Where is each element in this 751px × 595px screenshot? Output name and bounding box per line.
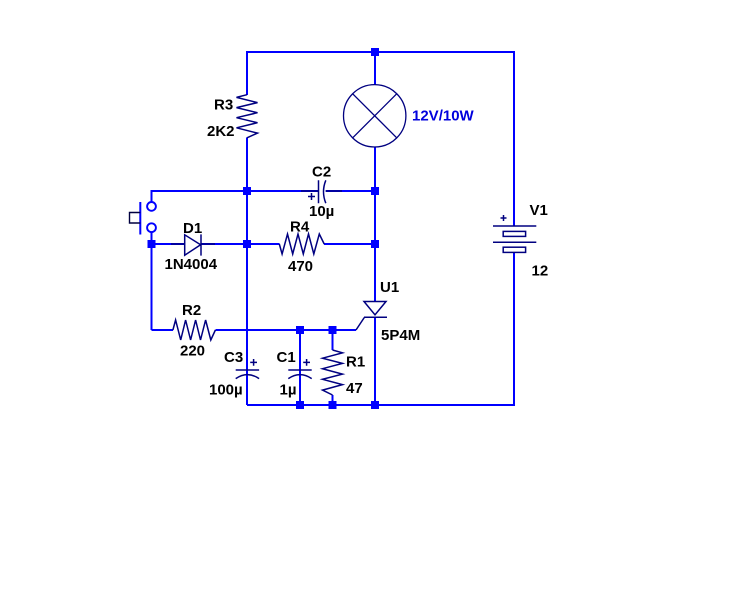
wire: row-3 lead from left rail to R2	[152, 329, 174, 331]
svg-text:5P4M: 5P4M	[381, 327, 420, 344]
lamp 12V/10W	[344, 85, 406, 147]
svg-text:12: 12	[532, 263, 549, 280]
pushbutton switch cap	[130, 213, 141, 224]
junction bottom rail / R1	[329, 401, 337, 409]
svg-text:C2: C2	[312, 164, 331, 181]
wire: R1 bottom lead	[332, 395, 334, 405]
wire: C1 branch from row-3 junction to bottom rail	[299, 330, 301, 405]
wire: row-1 left segment (switch corner to C2)	[152, 191, 319, 202]
resistor R1	[323, 350, 343, 395]
svg-text:1µ: 1µ	[280, 382, 297, 399]
junction top rail / lamp	[371, 48, 379, 56]
svg-text:2K2: 2K2	[207, 123, 235, 140]
svg-text:R1: R1	[346, 354, 365, 371]
junction row2 / R4-U1	[371, 240, 379, 248]
label C1 polarity +	[303, 359, 310, 366]
thyristor U1	[356, 302, 387, 331]
svg-text:R3: R3	[214, 97, 233, 114]
svg-text:C3: C3	[224, 349, 243, 366]
wire: U1 cathode lead down to bottom rail	[374, 318, 376, 406]
junction row2 / switch-D1	[148, 240, 156, 248]
battery V1	[493, 215, 536, 252]
wire: switch bottom terminal to row-2 junction	[151, 233, 153, 244]
wire: top rail from R3 top to right rail, corner down to battery	[247, 52, 514, 226]
junction row1 / lamp-C2	[371, 187, 379, 195]
resistor R4	[279, 234, 324, 254]
svg-text:C1: C1	[277, 349, 296, 366]
resistor R3	[237, 95, 258, 138]
svg-text:10µ: 10µ	[309, 203, 334, 220]
pushbutton switch bottom terminal	[147, 223, 156, 232]
wire: lamp branch between row 1 and row 2	[374, 191, 376, 244]
svg-text:47: 47	[346, 380, 363, 397]
wire: lamp bottom stub to row-1 junction	[374, 147, 376, 192]
svg-text:R4: R4	[290, 219, 310, 236]
capacitor C1	[288, 370, 311, 379]
junction row1 / R3-C2	[243, 187, 251, 195]
svg-text:D1: D1	[183, 220, 202, 237]
svg-text:220: 220	[180, 343, 205, 360]
wire: lamp top stub	[374, 52, 376, 85]
capacitor C3	[236, 370, 259, 379]
wire: row-2 anode lead to D1	[152, 243, 185, 245]
junction row3 / R1 top-gate	[329, 326, 337, 334]
svg-text:100µ: 100µ	[209, 382, 243, 399]
junction bottom rail / C1	[296, 401, 304, 409]
wire: R1 top lead	[332, 330, 334, 350]
wire: row-2 D1 cathode to R4	[201, 243, 280, 245]
resistor R2	[173, 320, 216, 340]
junction bottom rail / U1 cathode	[371, 401, 379, 409]
label C2 polarity +	[308, 193, 315, 200]
svg-text:V1: V1	[530, 202, 548, 219]
svg-text:1N4004: 1N4004	[165, 256, 218, 273]
pushbutton switch actuator bar	[139, 202, 141, 235]
diode D1	[171, 234, 215, 255]
capacitor C2	[301, 180, 342, 203]
svg-text:R2: R2	[182, 302, 201, 319]
wire: row-2 R4 to lamp-branch junction	[324, 243, 375, 245]
wire: C3 branch from row-1 junction down to bottom rail	[246, 191, 248, 405]
wire: row-1 right segment (C2 to lamp junction)	[326, 190, 375, 192]
wire: R3 top lead	[246, 51, 248, 95]
wire: R3 bottom lead to row-1 junction	[246, 138, 248, 192]
svg-text:12V/10W: 12V/10W	[412, 108, 475, 125]
pushbutton switch top terminal	[147, 202, 156, 211]
wire: left rail down to R2 row	[151, 244, 153, 330]
junction row2 / D1-R4	[243, 240, 251, 248]
label C3 polarity +	[250, 359, 257, 366]
wire: bottom rail with corner up to battery minus	[247, 252, 514, 405]
svg-text:470: 470	[288, 258, 313, 275]
wire: row-3 from R2 to gate bend	[216, 329, 357, 331]
svg-text:U1: U1	[380, 279, 399, 296]
junction row3 / C1 top	[296, 326, 304, 334]
wire: U1 anode lead	[374, 244, 376, 302]
